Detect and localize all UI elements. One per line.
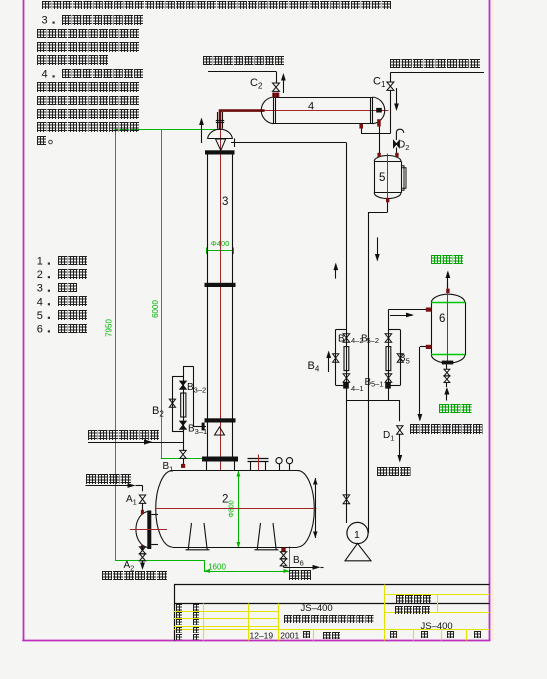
text label 加热蒸汽 [86, 474, 131, 484]
svg-text:B2: B2 [152, 405, 164, 419]
drawing sheet magenta border right [489, 0, 491, 641]
cooler V6 red centerline [447, 289, 449, 363]
vessel V5 red centerline [387, 154, 389, 200]
bypass valve [169, 399, 175, 407]
title block outer top [174, 584, 490, 586]
text title 设计阶段 [395, 606, 430, 613]
text note 塔这样可以做连续精 [37, 122, 139, 132]
V5 top nozzles [377, 153, 380, 157]
column C3 red centerline [220, 112, 222, 470]
V5 bottom piping elbow [387, 202, 389, 212]
valve B5-1 [385, 374, 392, 382]
feed pipe from storage [88, 442, 183, 444]
condenser E4 shell [274, 97, 373, 99]
valve A1 [139, 495, 145, 503]
rotameter B2 [181, 393, 186, 417]
rotameter bypass branch [172, 376, 174, 432]
svg-text:B: B [338, 334, 345, 345]
column C3 bottom flange to tank [202, 457, 238, 462]
tank T2 shell [173, 470, 298, 472]
svg-text:B5: B5 [399, 353, 410, 366]
valve B4-1 [343, 374, 350, 382]
valve D2 [394, 141, 400, 148]
reflux distributor funnel [216, 139, 226, 151]
line 3 riser to cooler [388, 310, 390, 401]
dimension 1600 [204, 560, 206, 571]
feed level green line into tank [161, 458, 206, 460]
column C3 top flange [205, 150, 235, 154]
text note 是强制回流都应在管路 [37, 29, 139, 39]
check valve on line 1 [343, 495, 350, 504]
text note 4 当稀乙醇贮罐为冷 [62, 69, 143, 79]
text label 接水循环回水总管 [203, 56, 284, 66]
svg-text:3: 3 [37, 283, 43, 295]
text title row label 4 char2 [193, 634, 199, 640]
feed riser line [183, 367, 185, 452]
D1 branch [399, 400, 401, 421]
text legend item 4 [58, 296, 88, 306]
dimension 6000 vertical [161, 129, 163, 459]
dimension phi800 tank diameter [238, 471, 240, 549]
manifold bottom header [346, 400, 399, 402]
tank saddle left [186, 523, 210, 550]
text title row label 0 char2 [193, 604, 199, 610]
svg-text:2001: 2001 [280, 630, 299, 640]
condensate line to vessel 5 [379, 127, 381, 153]
text label 来自稀乙醇贮罐 [88, 430, 159, 440]
title block yellow grid [384, 585, 386, 641]
text title row label 3 char2 [193, 627, 199, 633]
svg-text:5–2: 5–2 [367, 336, 380, 345]
faint sheet shadow line right of border [491, 0, 493, 641]
text title 张2 [421, 631, 428, 638]
B4 bypass branch [335, 329, 337, 385]
V5 side bracket [402, 166, 405, 191]
svg-text:B6: B6 [293, 555, 304, 568]
red vapor pipe column top to condenser [220, 111, 265, 130]
cooling water return label 接水循环回水总管 [208, 71, 276, 73]
text label 接凝结水总管 [102, 571, 167, 581]
text label 残液 [289, 570, 311, 580]
text note line1 也可放置在最高一层楼面或放于地面层并加一台防爆液泵泵回流 [42, 1, 391, 9]
drain nozzle [281, 548, 285, 552]
pump P1 base triangle [345, 543, 371, 560]
condenser red centerline [265, 110, 389, 112]
svg-text:6000: 6000 [151, 300, 160, 318]
steam head flange bar [147, 511, 151, 550]
svg-text:12–19: 12–19 [250, 630, 274, 640]
text title row label 1 char2 [193, 612, 199, 618]
svg-text:6: 6 [439, 313, 445, 325]
svg-text:B4: B4 [308, 360, 320, 374]
flow arrow up at column top [201, 120, 203, 144]
V5 bottom nozzle [386, 198, 389, 202]
text note 以控制回流量 [37, 55, 108, 65]
text label 取样口 [377, 467, 411, 477]
tank feed nozzle B1 [181, 464, 185, 468]
valve B3-1 [180, 421, 186, 429]
text title row label 4 char1 [176, 634, 182, 640]
valve B4-2 [343, 334, 350, 342]
text note 凝液时稀乙醇应放至 [37, 82, 139, 92]
svg-text:4: 4 [37, 296, 43, 308]
text title 年 [303, 631, 310, 638]
svg-text:5: 5 [37, 310, 43, 322]
steam head red centerline [130, 529, 167, 531]
text note 馏 [37, 136, 46, 146]
text legend item 2 [58, 269, 88, 279]
title block left edge [174, 585, 176, 641]
feed distributor triangle [215, 427, 225, 435]
text title 张1 [390, 631, 397, 638]
steam head hemisphere [136, 512, 148, 548]
manhole on tank [250, 462, 252, 471]
column C3 top dome [208, 129, 233, 139]
steam nozzles [141, 510, 144, 514]
condensate water piping under condenser [361, 129, 363, 134]
text legend item 5 [58, 310, 88, 320]
instrument stubs on tank [279, 464, 281, 471]
text title row label 0 char1 [176, 604, 182, 610]
condenser right head nozzle tick [376, 108, 382, 113]
svg-text:5–1: 5–1 [371, 380, 384, 389]
svg-text:JS–400: JS–400 [421, 621, 453, 632]
cooling water supply label 接水循环上水总管 [390, 72, 484, 74]
vessel V5 shell [374, 161, 376, 193]
text title 比例 [323, 632, 340, 639]
svg-text:4: 4 [42, 68, 48, 80]
ground/base green line [115, 560, 204, 562]
drawing sheet magenta border bottom [22, 640, 490, 642]
rotameter B4 [344, 347, 349, 371]
text label 冷却水 top [431, 255, 464, 265]
svg-text:D2: D2 [398, 140, 409, 153]
svg-text:A1: A1 [126, 494, 137, 507]
cooler V6 tube sheets green [431, 302, 465, 304]
svg-text:7950: 7950 [105, 319, 114, 337]
tank T2 red centerline [156, 508, 317, 510]
valve B3-2 [180, 381, 186, 389]
text label 冷却水 bottom [439, 404, 472, 414]
svg-text:1600: 1600 [208, 562, 226, 571]
text label 至成品乙醇贮罐 [410, 424, 483, 434]
svg-text:4–1: 4–1 [351, 384, 364, 393]
pump line 2 from vessel 5 [368, 212, 370, 533]
column neck into tank [206, 462, 208, 471]
V6 nozzles [446, 289, 449, 293]
svg-text:C1: C1 [373, 76, 386, 90]
C1 drop and valve [390, 72, 392, 82]
pump P1 circle [347, 522, 368, 543]
reflux return line from column top [231, 142, 346, 144]
text title 设计项目 [396, 595, 431, 602]
title block second line [174, 603, 490, 605]
column C3 mid flange [205, 283, 236, 287]
product line to storage [420, 346, 426, 348]
text title row label 2 char1 [176, 619, 182, 625]
tank right end weld bracket [315, 478, 317, 538]
condenser bottom nozzles [359, 124, 363, 129]
svg-text:2: 2 [37, 269, 43, 281]
svg-text:2: 2 [222, 494, 228, 506]
text note 3 无论是自回流 还 [62, 15, 143, 25]
text title row label 3 char1 [176, 627, 182, 633]
feed block valve above B1 [180, 450, 186, 458]
column C3 vapor neck [217, 112, 219, 129]
valve B5-2 [385, 334, 392, 342]
condenser tube sheets [273, 97, 275, 124]
flow arrow down beside line2 [377, 237, 379, 259]
column C3 shell walls [207, 155, 209, 457]
cooler V6 shell [431, 302, 433, 355]
svg-text:JS–400: JS–400 [301, 603, 333, 614]
B5 bypass branch [400, 330, 402, 386]
cooling water out arrow top [447, 282, 449, 289]
svg-text:4: 4 [308, 101, 314, 113]
drain outlet line [283, 566, 285, 567]
svg-text:D1: D1 [383, 430, 394, 443]
cooler V6 to-cooler pipe [388, 309, 426, 311]
valve B6 double [280, 552, 286, 559]
text legend item 1 [58, 256, 88, 266]
cooling water inlet bottom [442, 361, 454, 365]
column C3 lower flange [205, 418, 236, 422]
D2 vent gooseneck [396, 129, 403, 140]
text note 中再装一只转子流量计 [37, 42, 139, 52]
text legend item 6 [58, 324, 88, 334]
svg-text:C2: C2 [250, 77, 263, 91]
svg-text:1: 1 [37, 256, 43, 268]
dimension line top datum [115, 129, 220, 131]
svg-text:B3–2: B3–2 [187, 382, 206, 395]
svg-text:1: 1 [354, 529, 360, 541]
text note 塔釜如果稀乙醇是经 [37, 96, 139, 106]
flow arrow up beside C2 [283, 75, 285, 93]
text label 接水循环上水总管 [390, 59, 480, 69]
text title row label 1 char1 [176, 612, 182, 618]
C2 drop and valve [276, 71, 278, 83]
svg-text:5: 5 [379, 172, 385, 184]
condensate line A2 [142, 547, 144, 550]
drawing sheet magenta border left [23, 0, 25, 641]
valve A2 double [139, 547, 145, 554]
pump suction line 1 [346, 143, 348, 523]
rotameter B5 [386, 347, 391, 371]
feed nozzle into column [194, 426, 206, 428]
flow arrow down beside C1 [396, 88, 398, 109]
tank saddle right [255, 523, 279, 550]
text title 共 [447, 631, 454, 638]
text legend item 3 [58, 283, 78, 293]
steam supply line [86, 485, 134, 487]
svg-text:3: 3 [42, 15, 48, 27]
flow arrow up beside line1 [335, 265, 337, 279]
condensate arrow down [142, 561, 144, 568]
svg-text:3: 3 [222, 196, 228, 208]
condenser top-left nozzle [272, 93, 279, 98]
text note 预热时可以从中段进中 [37, 109, 139, 119]
dimension 7950 vertical [115, 129, 117, 560]
text title row label 2 char2 [193, 619, 199, 625]
text title 酒精精馏操工艺流程图 [284, 615, 374, 623]
svg-text:6: 6 [37, 323, 43, 335]
text title 张3 [474, 631, 481, 638]
